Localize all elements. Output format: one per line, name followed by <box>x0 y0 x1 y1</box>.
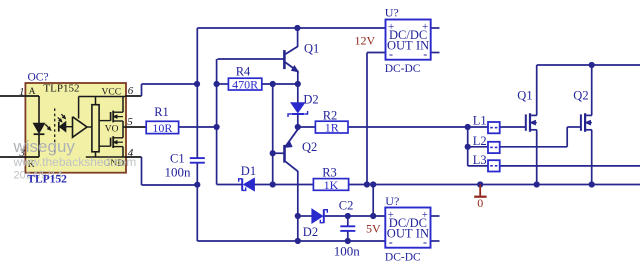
label R3 <box>322 166 337 180</box>
svg-text:U?: U? <box>385 6 399 20</box>
label C1 <box>165 152 192 180</box>
resistor R3 <box>313 178 348 192</box>
diode LED emitter inside opto <box>33 96 50 157</box>
wire opto VO totem pole <box>123 121 125 138</box>
pin number 1 <box>19 86 25 98</box>
label D1 <box>241 164 256 178</box>
node C1 GND junction <box>194 182 200 188</box>
label 12V <box>355 34 376 48</box>
wire L3 left lead <box>468 165 489 167</box>
capacitor C2 <box>340 226 355 231</box>
svg-text:-: - <box>389 235 393 249</box>
wire L2 left lead <box>468 146 489 148</box>
svg-text:VO: VO <box>105 124 119 134</box>
wire Q1 collector vertical <box>297 28 299 47</box>
wire GND vertical to bottom rail <box>196 185 198 241</box>
label U? upper <box>385 6 399 20</box>
wire dashed isolation line <box>54 108 56 153</box>
wire DCDC1 OUT- lead <box>367 52 386 54</box>
svg-text:10R: 10R <box>152 121 172 135</box>
label OC? reference <box>28 72 49 84</box>
svg-text:Q1: Q1 <box>517 89 532 103</box>
svg-text:Q1: Q1 <box>304 41 319 55</box>
op-amp U opto body TLP152 yellow box <box>25 83 126 173</box>
svg-text:www.thebackshed.com: www.thebackshed.com <box>13 155 137 169</box>
wire L3 output rail <box>499 165 640 167</box>
svg-text:-: - <box>389 47 393 61</box>
node D2 anode junction <box>295 213 301 219</box>
pin number 5 <box>127 116 133 128</box>
node Q2 collector return junction <box>295 238 301 244</box>
wire base node vertical <box>216 84 218 185</box>
driver block rectangle inside opto <box>92 97 99 158</box>
wire D2 cathode to output node <box>297 114 299 127</box>
op-amp U? DCDC converter 5V <box>385 208 430 250</box>
node C2 bottom junction <box>345 238 351 244</box>
wire C1 upper vertical <box>196 28 198 158</box>
label R1 <box>154 105 169 119</box>
svg-text:R1: R1 <box>154 105 169 119</box>
node ground junction <box>477 181 483 187</box>
svg-text:L3: L3 <box>473 153 487 167</box>
node drain rail Q2 junction <box>589 62 595 68</box>
label TLP152 title <box>43 82 79 94</box>
wire D1 anode segment <box>254 184 272 186</box>
transistor Q2 MOSFET <box>581 113 592 132</box>
wire bottom return rail <box>197 240 385 242</box>
node Q2 source junction <box>589 181 595 187</box>
svg-text:L1: L1 <box>473 114 487 128</box>
transistor Q1 NPN <box>284 47 298 72</box>
wire emitter to D2 anode <box>297 84 299 103</box>
wire opto internal VCC rail <box>79 97 125 113</box>
svg-text:C2: C2 <box>339 199 354 213</box>
node 5V DCDC junction <box>370 213 376 219</box>
svg-text:wiseguy: wiseguy <box>13 137 76 156</box>
label K pin name <box>28 160 35 170</box>
resistor R1 <box>146 121 178 135</box>
wire R2 left lead <box>298 126 316 128</box>
label L1 <box>473 114 487 128</box>
wire DCDC1 IN- stub <box>431 52 440 54</box>
svg-text:TLP152: TLP152 <box>27 174 67 186</box>
label Q1 BJT <box>304 41 319 55</box>
inductor L2 ferrite bead <box>488 142 500 153</box>
svg-text:1R: 1R <box>325 121 339 135</box>
svg-text:R3: R3 <box>322 166 337 180</box>
svg-text:R2: R2 <box>323 109 338 123</box>
wire DCDC2 IN+ stub <box>431 215 440 217</box>
node VCC C1 junction <box>194 81 200 87</box>
label U? lower <box>385 194 399 208</box>
node Q2 base junction <box>270 150 276 156</box>
wire R2 right segment <box>348 126 488 128</box>
node DCDC1 return junction <box>364 181 370 187</box>
wire C2 bottom lead <box>347 231 349 241</box>
inductor L1 ferrite bead <box>488 122 500 133</box>
wire R3 left lead <box>273 184 314 186</box>
wire Q2 base lead <box>273 152 285 154</box>
svg-text:-: - <box>423 235 427 249</box>
label GND pin name <box>104 159 125 169</box>
svg-text:R4: R4 <box>236 65 251 79</box>
svg-text:DC-DC: DC-DC <box>385 63 421 75</box>
label C2 <box>334 199 361 259</box>
diode photodiode inside opto <box>58 114 73 131</box>
wire Q1 emitter vertical <box>297 71 299 85</box>
label D2 lower <box>303 225 318 239</box>
label Q1 MOSFET <box>517 89 532 103</box>
node L2 junction <box>465 144 471 150</box>
label R4 <box>236 65 251 79</box>
transistor lower output MOSFET inside opto <box>99 136 123 148</box>
node C2 top junction <box>345 213 351 219</box>
label VCC pin name <box>102 88 122 98</box>
svg-text:1K: 1K <box>324 178 339 192</box>
resistor R4 <box>228 78 261 92</box>
svg-text:6: 6 <box>128 85 134 97</box>
wire L1 to Q1 gate <box>499 126 525 128</box>
wire D2 anode segment <box>298 215 312 217</box>
wire Q1 drain vertical <box>536 65 538 115</box>
wire R1 output segment <box>179 126 217 128</box>
svg-text:100n: 100n <box>334 244 361 259</box>
svg-text:VCC: VCC <box>102 88 122 98</box>
wire pin5 VO lead <box>125 126 147 128</box>
pin number 6 <box>128 85 134 97</box>
diode D2 upper <box>288 103 308 117</box>
ground symbol 0 <box>474 185 486 211</box>
svg-text:D1: D1 <box>241 164 256 178</box>
pin number 4 <box>128 147 134 159</box>
svg-text:Q2: Q2 <box>302 140 317 154</box>
svg-text:DC-DC: DC-DC <box>385 252 421 264</box>
label L2 <box>473 134 487 148</box>
svg-text:5V: 5V <box>366 222 381 236</box>
wire pin3 cathode lead <box>0 156 39 158</box>
transistor upper output MOSFET inside opto <box>99 111 123 123</box>
transistor Q2 PNP <box>285 127 298 171</box>
label VO pin name <box>105 124 119 134</box>
wire source rail <box>349 184 640 186</box>
wire 5V line <box>324 215 386 217</box>
wire R4 output vertical <box>272 84 274 185</box>
wire DCDC1 IN+ stub <box>431 27 440 29</box>
svg-text:L2: L2 <box>473 134 487 148</box>
op-amp amplifier triangle inside opto <box>73 97 92 138</box>
wire DCDC2 plus vertical <box>372 185 374 217</box>
capacitor C1 <box>190 158 205 163</box>
diode D2 lower <box>312 209 327 223</box>
svg-text:Q2: Q2 <box>573 89 588 103</box>
wire pin4 to GND junction <box>142 157 198 185</box>
label DC-DC lower <box>385 252 421 264</box>
label 5V <box>366 222 381 236</box>
diode D1 <box>239 178 255 191</box>
wire MOSFET drain top rail <box>537 64 640 66</box>
label DC-DC upper <box>385 63 421 75</box>
svg-text:0: 0 <box>477 196 483 210</box>
wire 12V top rail <box>197 27 385 29</box>
wire opto internal GND rail <box>86 147 125 157</box>
wire DCDC1 OUT- vertical <box>366 53 368 185</box>
label R2 <box>323 109 338 123</box>
node gate line L1 junction <box>465 124 471 130</box>
wire Q2 collector vertical <box>297 171 299 241</box>
wire C2 top lead <box>347 216 349 226</box>
wire Q1 base lead <box>217 59 284 84</box>
wire R4 left segment <box>217 83 229 85</box>
op-amp U? DCDC converter 12V <box>386 20 431 62</box>
node DCDC2 plus junction <box>370 181 376 187</box>
svg-text:A: A <box>29 87 36 97</box>
svg-text:TLP152: TLP152 <box>43 82 79 94</box>
node 12V rail to Q1 collector junction <box>294 25 300 31</box>
svg-text:-: - <box>423 47 427 61</box>
node driver output junction <box>295 124 301 130</box>
svg-text:5: 5 <box>127 116 133 128</box>
wire VCC segment from pin6 <box>142 84 198 96</box>
wire R4 right segment <box>262 83 298 85</box>
svg-text:100n: 100n <box>165 165 192 180</box>
svg-text:D2: D2 <box>303 93 318 107</box>
wire pin1 anode lead <box>0 95 39 97</box>
wire Q2 source vertical <box>591 130 593 185</box>
svg-text:C1: C1 <box>170 152 185 166</box>
label TLP152 under box <box>27 174 67 186</box>
label A pin name <box>29 87 36 97</box>
node Q1 emitter junction <box>295 81 301 87</box>
wire pin6 VCC lead <box>125 95 142 97</box>
resistor R2 <box>315 121 348 135</box>
svg-text:1: 1 <box>19 86 25 98</box>
pin number 3 <box>19 147 26 159</box>
wire D1 cathode segment <box>217 184 242 186</box>
wire L feed vertical <box>467 127 469 166</box>
inductor L3 ferrite bead <box>488 160 500 171</box>
svg-text:D2: D2 <box>303 225 318 239</box>
wire L2 right segment <box>499 127 581 147</box>
label D2 upper <box>303 93 318 107</box>
label L3 <box>473 153 487 167</box>
wire pin4 GND lead <box>125 156 142 158</box>
node base node junction <box>214 81 220 87</box>
label Q2 BJT <box>302 140 317 154</box>
wire DCDC2 IN- stub <box>431 240 440 242</box>
watermark <box>13 137 137 182</box>
svg-text:470R: 470R <box>232 78 258 92</box>
svg-text:U?: U? <box>385 194 399 208</box>
node Q1 source junction <box>534 181 540 187</box>
node D1 R3 junction <box>270 181 276 187</box>
wire C1 lower vertical <box>196 163 198 185</box>
wire Q2 drain vertical <box>591 65 593 115</box>
svg-text:12V: 12V <box>355 34 376 48</box>
node R4 output junction <box>270 81 276 87</box>
transistor Q1 MOSFET <box>526 113 537 132</box>
wire Q1 source vertical <box>536 130 538 185</box>
label Q2 MOSFET <box>573 89 588 103</box>
node VO R1 junction <box>214 124 220 130</box>
